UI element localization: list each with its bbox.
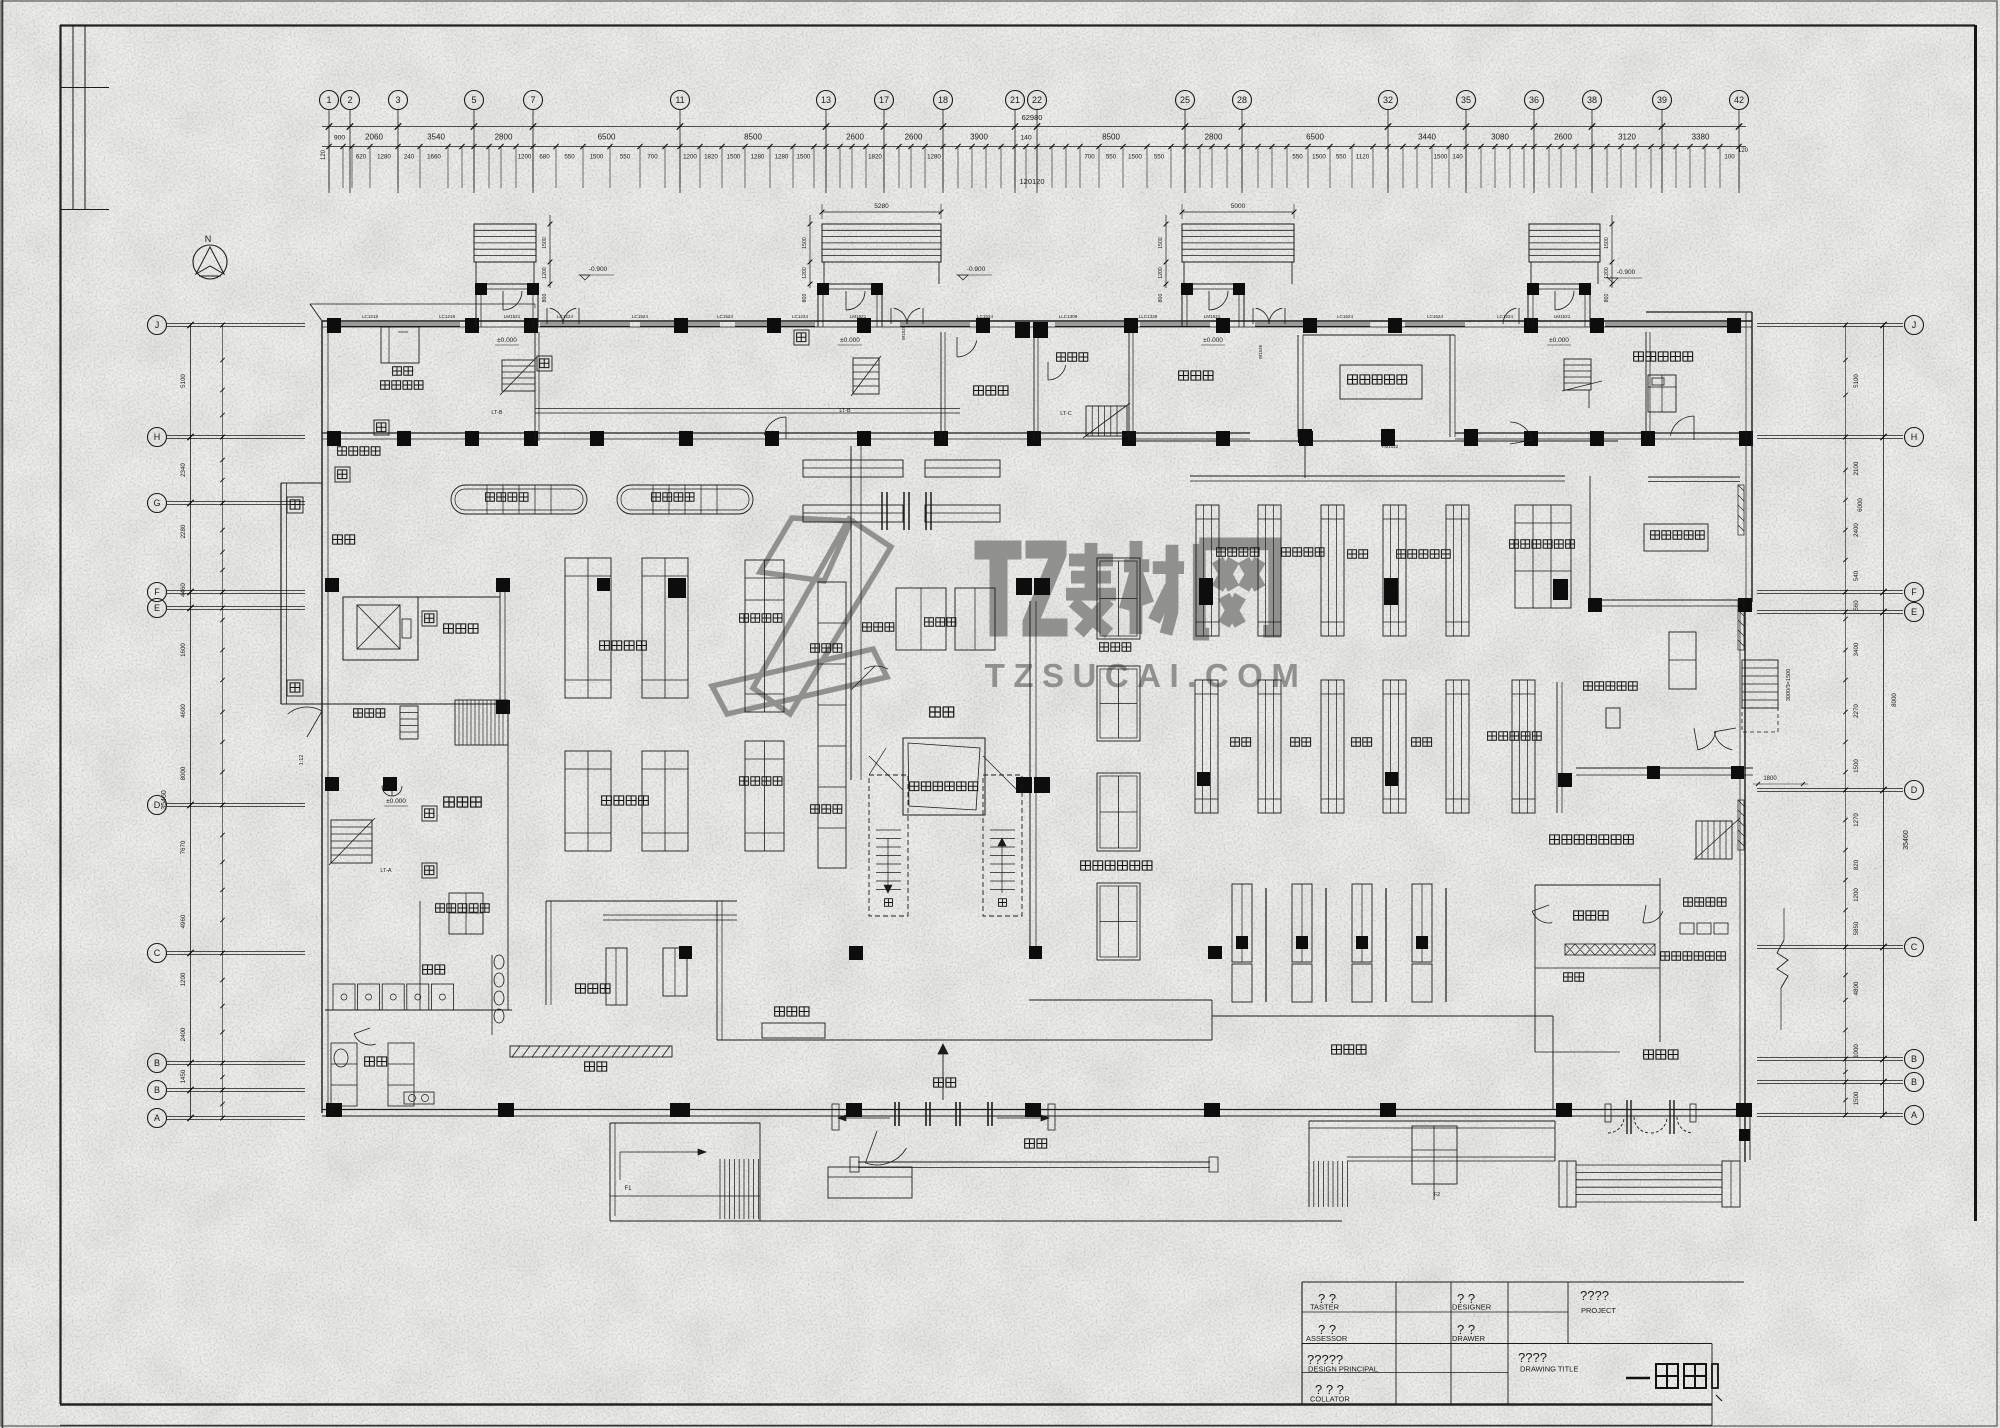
svg-text:LC1524: LC1524 (632, 314, 649, 319)
svg-text:±0.000: ±0.000 (1203, 337, 1223, 344)
svg-text:LC1218: LC1218 (439, 314, 456, 319)
rack upper 1 (1196, 505, 1219, 636)
cashier unit (1292, 884, 1312, 962)
stair right wing (1696, 821, 1732, 859)
svg-text:±0.000: ±0.000 (1549, 337, 1569, 344)
svg-text:1660: 1660 (427, 154, 441, 161)
binding margin lines (72, 25, 74, 209)
urinals (494, 955, 504, 969)
liquor area walls (1556, 682, 1558, 813)
door arcs on band wall (764, 417, 786, 435)
label xiu-xi-shi (1179, 371, 1213, 380)
label xian-guo-shi-shu (600, 641, 647, 650)
label yan-lei-zhuan-mai-qu (1488, 732, 1542, 740)
rack farm produce 1 (565, 751, 611, 851)
double swing door (894, 308, 907, 324)
mid-floor columns (849, 946, 863, 960)
LT-B stair left (502, 360, 535, 391)
svg-text:4600: 4600 (180, 704, 187, 718)
cashier unit (1352, 884, 1372, 962)
svg-text:550: 550 (1336, 154, 1347, 161)
svg-text:DESIGN PRINCIPAL: DESIGN PRINCIPAL (1308, 1365, 1378, 1374)
svg-text:22: 22 (1032, 95, 1042, 105)
svg-text:1450: 1450 (180, 1069, 187, 1083)
svg-text:2600: 2600 (846, 133, 864, 142)
svg-text:35460: 35460 (1903, 830, 1910, 850)
rack upper 3 (1321, 505, 1344, 636)
entrance sliding door marks (894, 1102, 896, 1126)
top exterior wall J-axis (322, 320, 1752, 322)
svg-text:35: 35 (1461, 95, 1471, 105)
label mian-bao-fang (576, 984, 610, 993)
cashier unit (1232, 884, 1252, 962)
left dimension chain (190, 325, 192, 1118)
svg-text:5280: 5280 (874, 203, 889, 210)
label zhi-lei (1348, 550, 1368, 558)
svg-text:1820: 1820 (704, 154, 718, 161)
label leng-dong-shi-pin (740, 614, 782, 622)
svg-text:D: D (1911, 785, 1918, 795)
label mian-bao-jia-gong-qu (436, 904, 490, 912)
svg-text:3540: 3540 (427, 133, 445, 142)
entrance stair treads (822, 224, 941, 262)
center top shelves (803, 460, 903, 477)
misc columns (674, 1103, 690, 1117)
svg-text:F: F (154, 587, 160, 597)
stadium display ovals (451, 485, 587, 514)
elevator (343, 597, 418, 660)
lower platform edge (610, 1220, 1342, 1222)
svg-text:????: ???? (1580, 1288, 1609, 1303)
right big stair with rails (1559, 1161, 1576, 1207)
svg-text:±0.000: ±0.000 (497, 337, 517, 344)
watermark logo base (712, 649, 887, 714)
double swing door (1256, 308, 1269, 324)
svg-text:N: N (205, 234, 212, 244)
svg-text:B: B (1911, 1077, 1917, 1087)
rack lower 4 (1383, 680, 1406, 813)
label zheng-shi-lei (444, 624, 478, 633)
label nan-wei (423, 965, 445, 974)
svg-text:TZSUCAI.COM: TZSUCAI.COM (985, 657, 1308, 694)
svg-text:1500: 1500 (1312, 154, 1326, 161)
left axis bubbles (148, 316, 167, 335)
LT-A stair (331, 820, 372, 863)
svg-text:1500: 1500 (1158, 237, 1164, 249)
svg-text:2400: 2400 (1853, 523, 1860, 537)
label fang-bian-shi-pin 1 (1217, 548, 1259, 556)
svg-text:1200: 1200 (802, 267, 808, 279)
rack fresh produce 2 (642, 558, 688, 698)
svg-text:1500: 1500 (797, 154, 811, 161)
lower wall columns (327, 431, 341, 446)
door arc below bottom wall (865, 1148, 906, 1165)
svg-text:E: E (154, 603, 160, 613)
svg-text:1500: 1500 (727, 154, 741, 161)
svg-text:4960: 4960 (180, 914, 187, 928)
svg-text:39: 39 (1657, 95, 1667, 105)
cashier unit (1412, 884, 1432, 962)
svg-text:LC1524: LC1524 (717, 314, 734, 319)
svg-text:2100: 2100 (1853, 461, 1860, 475)
svg-text:E: E (1911, 607, 1917, 617)
svg-text:DRAWING TITLE: DRAWING TITLE (1520, 1365, 1578, 1374)
rack fresh produce 1 (565, 558, 611, 698)
svg-text:B: B (154, 1085, 160, 1095)
label yin-liao 2 (1412, 738, 1432, 746)
svg-text:W1529: W1529 (901, 325, 906, 340)
svg-text:LT-C: LT-C (1060, 411, 1072, 417)
svg-text:11: 11 (675, 95, 684, 105)
svg-text:W1526: W1526 (1258, 344, 1263, 359)
top band lower wall (322, 432, 1250, 434)
wall bakery east (716, 901, 718, 1040)
title block (1302, 1281, 1744, 1283)
entrance vestibule (818, 283, 882, 285)
rack rice 1 (896, 588, 946, 650)
label cang-ku (930, 707, 954, 717)
rack upper 4 (1383, 505, 1406, 636)
entrance vestibule (1182, 283, 1244, 285)
left protruding wall (280, 483, 282, 704)
label mi-liang-qu (925, 618, 956, 626)
svg-text:1200: 1200 (1158, 267, 1164, 279)
svg-text:LT-B: LT-B (491, 410, 503, 416)
svg-text:????: ???? (1518, 1350, 1547, 1365)
svg-text:1500: 1500 (1853, 1091, 1860, 1105)
svg-text:550: 550 (1106, 154, 1117, 161)
rack rice 2 (955, 588, 995, 650)
svg-text:2: 2 (347, 95, 352, 105)
svg-text:LM1521: LM1521 (1554, 314, 1571, 319)
svg-text:700: 700 (647, 154, 658, 161)
svg-text:28: 28 (1237, 95, 1247, 105)
rack lower 5 (1446, 680, 1469, 813)
svg-text:42: 42 (1734, 95, 1744, 105)
queue boundary walls (717, 1039, 1212, 1041)
label fang-bian-shi-pin 2 (1282, 548, 1324, 556)
watermark logo stem (753, 519, 891, 714)
svg-text:DRAWER: DRAWER (1452, 1334, 1486, 1343)
svg-text:2060: 2060 (365, 133, 383, 142)
escalator right (1742, 660, 1778, 708)
rack lower 3 (1321, 680, 1344, 813)
svg-text:LT-A: LT-A (380, 868, 392, 874)
svg-text:5100: 5100 (1853, 374, 1860, 388)
label fa-dong-ji-fang (1684, 898, 1726, 906)
hygiene display stand (1515, 505, 1571, 608)
break line right (1777, 940, 1788, 988)
svg-text:C: C (154, 948, 161, 958)
svg-text:120120: 120120 (1019, 177, 1044, 186)
big drawing title hanzi (1626, 1377, 1650, 1380)
label heng-ding-shi-pin-chu-chuang (910, 782, 978, 791)
freestanding columns gift area (1298, 429, 1312, 443)
cosmetics cabinet (1648, 375, 1676, 412)
svg-text:3440: 3440 (1418, 133, 1436, 142)
rack lower 1 (1195, 680, 1218, 813)
entrance stair treads (474, 224, 536, 262)
bottom exterior wall A-axis (322, 1109, 1750, 1111)
svg-text:5000: 5000 (1231, 203, 1246, 210)
svg-text:1500: 1500 (1128, 154, 1142, 161)
svg-text:TASTER: TASTER (1310, 1303, 1340, 1312)
svg-text:8000: 8000 (1891, 693, 1898, 707)
corridor stub right (1648, 476, 1740, 478)
svg-text:1820: 1820 (868, 154, 882, 161)
svg-text:PROJECT: PROJECT (1581, 1306, 1616, 1315)
svg-text:13: 13 (821, 95, 831, 105)
svg-text:140: 140 (1452, 154, 1463, 161)
self-service media band (1565, 944, 1655, 955)
corridor walls right (1589, 476, 1591, 606)
svg-text:1200: 1200 (1604, 267, 1610, 279)
office rooms (1534, 885, 1536, 1052)
watermark letter Z (1023, 541, 1067, 636)
label bao-an-shi (974, 386, 1008, 395)
watermark hanzi wang (1199, 544, 1274, 634)
north arrow (193, 245, 227, 279)
svg-text:32: 32 (1383, 95, 1393, 105)
water boxes top band (374, 420, 389, 435)
watermark hanzi su (1066, 543, 1116, 633)
mitre corner top-left (310, 304, 322, 321)
svg-text:62980: 62980 (1022, 113, 1043, 122)
svg-text:21: 21 (1010, 95, 1020, 105)
window hatches right wall (1738, 485, 1744, 535)
svg-text:3380: 3380 (1692, 133, 1710, 142)
svg-text:25: 25 (1180, 95, 1190, 105)
label leng-dong-shi-pin 2 (740, 777, 782, 785)
boxed label gift area (1340, 365, 1422, 399)
svg-text:7670: 7670 (180, 840, 187, 854)
label qing-shi (333, 535, 355, 544)
label tiao-wei-pin (863, 623, 894, 631)
svg-text:1280: 1280 (927, 154, 941, 161)
svg-text:B: B (154, 1058, 160, 1068)
entrance stair treads (1182, 224, 1294, 262)
svg-text:LLC1309: LLC1309 (1059, 314, 1078, 319)
svg-text:B: B (1911, 1054, 1917, 1064)
svg-text:820: 820 (1853, 859, 1860, 870)
label hua-zhuang-yong-pin-qu (1634, 352, 1693, 361)
tall left shelf (818, 582, 846, 868)
label xiao-du-shi (354, 709, 385, 717)
svg-text:2600: 2600 (1554, 133, 1572, 142)
bottom wall columns (326, 1103, 342, 1117)
double swing door (550, 308, 563, 324)
svg-text:5100: 5100 (180, 374, 187, 388)
svg-text:17: 17 (879, 95, 889, 105)
svg-text:F1: F1 (624, 1186, 632, 1192)
svg-text:ASSESSOR: ASSESSOR (1306, 1334, 1348, 1343)
svg-text:18: 18 (938, 95, 948, 105)
svg-text:8500: 8500 (1102, 133, 1120, 142)
svg-text:±0.000: ±0.000 (840, 337, 860, 344)
svg-text:LT-B: LT-B (839, 408, 851, 414)
svg-text:1280: 1280 (377, 154, 391, 161)
svg-text:800: 800 (802, 294, 808, 303)
svg-text:LC1524: LC1524 (1427, 314, 1444, 319)
label ci-men-ting (1644, 1050, 1678, 1059)
svg-text:35460: 35460 (161, 790, 168, 810)
svg-text:36: 36 (1529, 95, 1539, 105)
display window box (903, 738, 985, 815)
label li-pin-zhuan-mai-qu (1348, 375, 1407, 384)
entrance vestibule (476, 283, 538, 285)
svg-text:F2: F2 (1434, 1192, 1440, 1198)
svg-text:5850: 5850 (1853, 921, 1860, 935)
label nai-zhi-pin (811, 805, 842, 813)
svg-text:6500: 6500 (1306, 133, 1324, 142)
svg-text:1500: 1500 (542, 237, 548, 249)
label ling-shi 2 (1291, 738, 1311, 746)
svg-text:1270: 1270 (1853, 813, 1860, 827)
label nv-wei (365, 1057, 387, 1066)
svg-text:LC1224: LC1224 (792, 314, 809, 319)
LT-D stair right (1564, 359, 1591, 390)
watermark logo flag (760, 518, 851, 581)
svg-text:2800: 2800 (495, 133, 513, 142)
svg-text:2270: 2270 (1853, 704, 1860, 718)
right exterior wall (1751, 312, 1753, 602)
label jin-chang-shi-pin-zhuan-mai-qu (1550, 835, 1634, 844)
svg-text:560: 560 (1853, 600, 1860, 611)
svg-text:1: 1 (326, 95, 331, 105)
svg-text:-0.900: -0.900 (589, 266, 608, 273)
svg-text:4800: 4800 (1853, 981, 1860, 995)
svg-text:1500: 1500 (590, 154, 604, 161)
label xi-hua-yong-pin-zhan-tai (1510, 540, 1575, 548)
label duo-jie-shi (1057, 353, 1088, 361)
upper shelf wall line (1190, 475, 1565, 477)
label cun-bao (585, 1062, 607, 1071)
label jiu-lei-zhuan-mai-qu (1584, 682, 1638, 690)
rack upper 2 (1258, 505, 1281, 636)
label cu-xiao-qu (775, 1007, 809, 1016)
svg-text:7: 7 (530, 95, 535, 105)
LT-C stair (1086, 406, 1127, 436)
svg-text:6500: 6500 (598, 133, 616, 142)
watermark letter T (975, 541, 1021, 636)
svg-text:620: 620 (356, 154, 367, 161)
svg-text:8500: 8500 (744, 133, 762, 142)
svg-text:1500: 1500 (802, 237, 808, 249)
svg-text:D: D (154, 800, 161, 810)
svg-text:550: 550 (620, 154, 631, 161)
bakery counter (606, 948, 627, 1005)
svg-text:2340: 2340 (180, 463, 187, 477)
svg-text:J: J (155, 320, 160, 330)
svg-text:-0.900: -0.900 (1617, 269, 1636, 276)
rack frozen 2 (745, 741, 784, 851)
svg-text:1200: 1200 (683, 154, 697, 161)
center canopy steps (828, 1167, 912, 1198)
svg-text:1500: 1500 (1434, 154, 1448, 161)
dry goods window racks column (1097, 558, 1140, 639)
svg-text:C: C (1911, 942, 1918, 952)
svg-text:240: 240 (404, 154, 415, 161)
label ling-shi 1 (1231, 738, 1251, 746)
svg-text:800: 800 (1604, 294, 1610, 303)
label ban-gong-shi (1574, 911, 1608, 920)
svg-text:120: 120 (1738, 148, 1749, 154)
label yin-liao 1 (1352, 738, 1372, 746)
bakery walls (545, 901, 547, 1005)
top dimension chain row1 (322, 126, 1746, 128)
svg-text:550: 550 (1292, 154, 1303, 161)
svg-text:3000/3=1500: 3000/3=1500 (1786, 669, 1792, 701)
seafood sink (381, 327, 419, 363)
left exterior wall (321, 321, 323, 1113)
svg-text:A: A (154, 1113, 160, 1123)
watermark hanzi cai (1124, 541, 1184, 634)
canopy lines (858, 1161, 1210, 1163)
svg-text:H: H (1911, 432, 1918, 442)
small stair (400, 706, 418, 739)
svg-text:1120: 1120 (1356, 154, 1370, 161)
svg-text:±0.000: ±0.000 (386, 798, 406, 805)
svg-text:6000: 6000 (1857, 498, 1864, 512)
svg-text:1500: 1500 (1853, 759, 1860, 773)
svg-text:J: J (1912, 320, 1917, 330)
entrance 4 doors left (1503, 308, 1516, 324)
svg-text:1280: 1280 (751, 154, 765, 161)
label guo-ting (1025, 1139, 1047, 1148)
label wen-ti-yong-pin-qu (1397, 550, 1451, 558)
svg-text:700: 700 (1084, 154, 1095, 161)
svg-text:4460: 4460 (180, 583, 187, 597)
svg-text:1200: 1200 (180, 972, 187, 986)
svg-text:3080: 3080 (1491, 133, 1509, 142)
svg-text:-0.900: -0.900 (967, 266, 986, 273)
LT-B2 stair entrance2 (853, 358, 879, 394)
label mian-shi-lei (444, 797, 481, 807)
svg-text:1:12: 1:12 (299, 755, 305, 766)
rack lower 2 (1258, 680, 1281, 813)
rack upper 5 (1446, 505, 1469, 636)
svg-text:8000: 8000 (180, 766, 187, 780)
svg-text:COLLATOR: COLLATOR (1310, 1395, 1350, 1404)
svg-text:H: H (154, 432, 161, 442)
water box (537, 356, 552, 371)
label shui-chan-jia-gong (381, 381, 423, 389)
label yang-shi-kuai-qu (338, 447, 380, 455)
svg-text:2600: 2600 (905, 133, 923, 142)
room divider walls in top band (534, 332, 536, 441)
svg-text:F: F (1911, 587, 1917, 597)
svg-text:120: 120 (321, 149, 327, 160)
right axis bubbles (1905, 316, 1924, 335)
svg-text:LLC1329: LLC1329 (1139, 314, 1158, 319)
label hai-xian (393, 367, 413, 375)
entrance stair treads (1529, 224, 1600, 262)
warehouse walls (850, 446, 852, 780)
svg-text:1200: 1200 (1853, 888, 1860, 902)
inner corridor wall upper (535, 408, 960, 410)
baggage storage hatch (510, 1046, 672, 1057)
ramp 1:12 (455, 700, 508, 745)
svg-text:2800: 2800 (1205, 133, 1223, 142)
svg-text:DESIGNER: DESIGNER (1452, 1303, 1492, 1312)
rack frozen 1 (745, 560, 784, 712)
svg-text:1200: 1200 (518, 154, 532, 161)
label sheng-huo-yong-pin-zhan-tai (1081, 861, 1152, 870)
svg-text:G: G (153, 498, 160, 508)
svg-text:1500: 1500 (1604, 237, 1610, 249)
svg-text:1280: 1280 (775, 154, 789, 161)
svg-text:2280: 2280 (180, 524, 187, 538)
